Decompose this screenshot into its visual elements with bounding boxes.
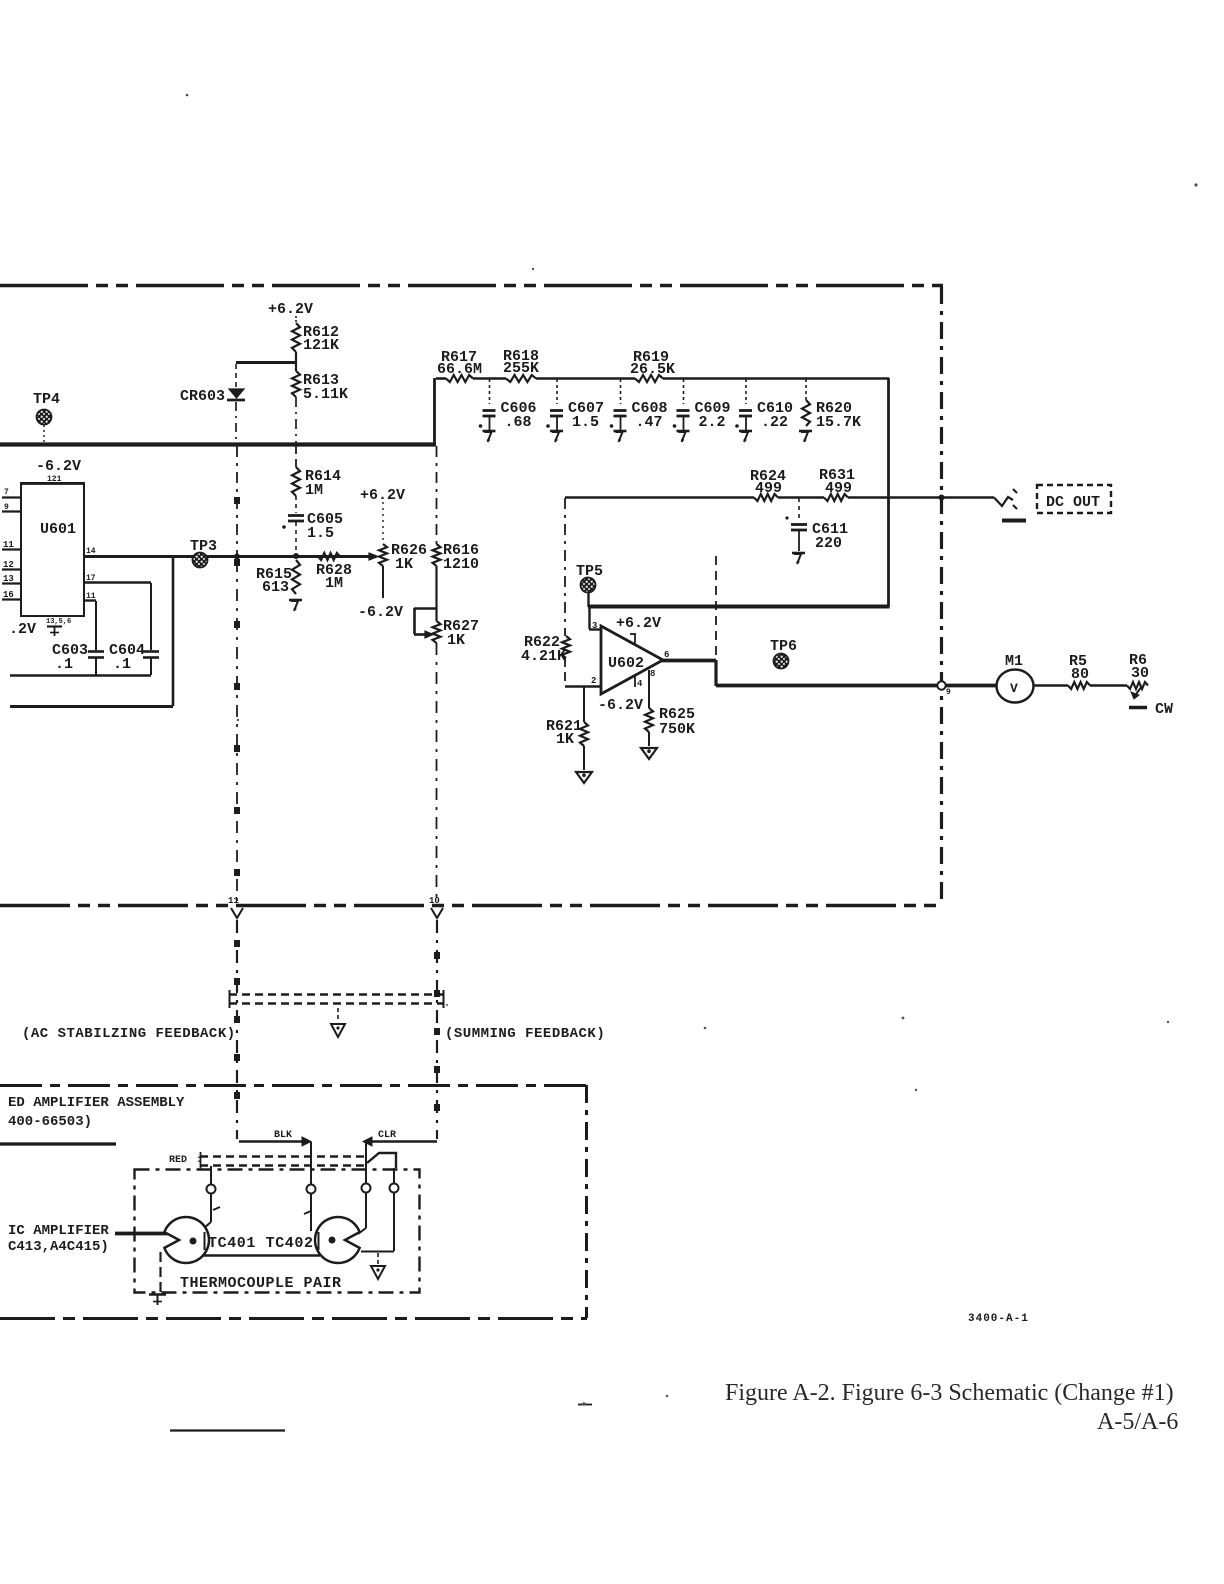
svg-text:121K: 121K (303, 337, 339, 354)
svg-text:1K: 1K (395, 556, 413, 573)
svg-text:TP4: TP4 (33, 391, 60, 408)
svg-text:+6.2V: +6.2V (268, 301, 313, 318)
svg-text:C413,A4C415): C413,A4C415) (8, 1239, 109, 1255)
svg-text:ED AMPLIFIER ASSEMBLY: ED AMPLIFIER ASSEMBLY (8, 1095, 185, 1111)
svg-text:1M: 1M (325, 575, 343, 592)
svg-text:255K: 255K (503, 360, 539, 377)
svg-text:.1: .1 (113, 656, 131, 673)
svg-text:1K: 1K (447, 632, 465, 649)
svg-text:(SUMMING FEEDBACK): (SUMMING FEEDBACK) (445, 1026, 605, 1042)
svg-text:1M: 1M (305, 482, 323, 499)
svg-text:IC AMPLIFIER: IC AMPLIFIER (8, 1223, 109, 1239)
svg-text:CLR: CLR (378, 1130, 396, 1141)
svg-text:1.5: 1.5 (572, 414, 599, 431)
svg-text:DC OUT: DC OUT (1046, 494, 1100, 511)
svg-text:THERMOCOUPLE PAIR: THERMOCOUPLE PAIR (180, 1275, 342, 1292)
svg-text:.22: .22 (761, 414, 788, 431)
svg-text:80: 80 (1071, 666, 1089, 683)
svg-text:.2V: .2V (9, 621, 36, 638)
svg-text:26.5K: 26.5K (630, 361, 675, 378)
svg-text:U602: U602 (608, 655, 644, 672)
svg-text:BLK: BLK (274, 1130, 292, 1141)
svg-text:2: 2 (591, 676, 596, 686)
svg-text:Figure A-2. Figure 6-3 Schemat: Figure A-2. Figure 6-3 Schematic (Change… (725, 1380, 1174, 1406)
svg-text:1210: 1210 (443, 556, 479, 573)
svg-text:-6.2V: -6.2V (598, 697, 643, 714)
svg-text:(AC STABILZING FEEDBACK): (AC STABILZING FEEDBACK) (22, 1026, 236, 1042)
svg-text:3: 3 (592, 621, 597, 631)
svg-text:4.21K: 4.21K (521, 648, 566, 665)
svg-text:14: 14 (86, 547, 96, 556)
svg-text:121: 121 (47, 475, 62, 484)
svg-text:.68: .68 (505, 414, 532, 431)
svg-text:499: 499 (755, 480, 782, 497)
svg-text:10: 10 (429, 896, 440, 906)
svg-text:U601: U601 (40, 521, 76, 538)
svg-text:.47: .47 (636, 414, 663, 431)
svg-text:-6.2V: -6.2V (36, 458, 81, 475)
svg-text:TC401 TC402: TC401 TC402 (208, 1235, 314, 1252)
svg-text:.1: .1 (55, 656, 73, 673)
svg-text:1K: 1K (556, 731, 574, 748)
svg-text:4: 4 (637, 679, 643, 689)
svg-text:220: 220 (815, 535, 842, 552)
svg-text:A-5/A-6: A-5/A-6 (1097, 1409, 1178, 1435)
svg-text:M1: M1 (1005, 653, 1023, 670)
svg-text:9: 9 (946, 688, 951, 697)
svg-text:7: 7 (4, 488, 9, 497)
svg-text:13,5,6: 13,5,6 (46, 618, 71, 626)
svg-text:66.6M: 66.6M (437, 361, 482, 378)
svg-text:CR603: CR603 (180, 388, 225, 405)
svg-text:6: 6 (664, 650, 669, 660)
svg-text:+6.2V: +6.2V (616, 615, 661, 632)
svg-text:30: 30 (1131, 665, 1149, 682)
svg-text:CW: CW (1155, 701, 1173, 718)
svg-text:750K: 750K (659, 721, 695, 738)
svg-text:2.2: 2.2 (699, 414, 726, 431)
svg-text:3400-A-1: 3400-A-1 (968, 1313, 1029, 1325)
svg-text:1.5: 1.5 (307, 525, 334, 542)
svg-text:RED: RED (169, 1155, 187, 1166)
svg-text:499: 499 (825, 480, 852, 497)
svg-text:11: 11 (228, 896, 239, 906)
svg-text:8: 8 (650, 669, 655, 679)
svg-text:-6.2V: -6.2V (358, 604, 403, 621)
svg-text:15.7K: 15.7K (816, 414, 861, 431)
svg-text:400-66503): 400-66503) (8, 1114, 92, 1130)
svg-text:TP3: TP3 (190, 538, 217, 555)
svg-text:9: 9 (4, 503, 9, 512)
svg-text:V: V (1010, 681, 1018, 696)
svg-text:5.11K: 5.11K (303, 386, 348, 403)
svg-text:613: 613 (262, 579, 289, 596)
svg-text:+6.2V: +6.2V (360, 487, 405, 504)
svg-text:TP6: TP6 (770, 638, 797, 655)
